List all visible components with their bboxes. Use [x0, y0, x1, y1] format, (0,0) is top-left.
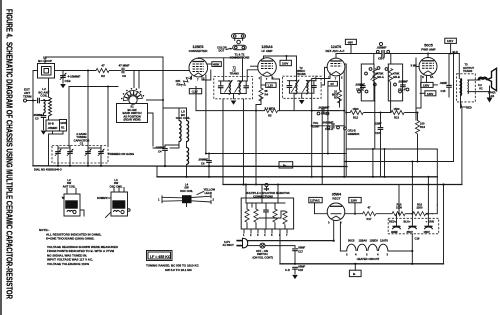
grid rail vertical junction [162, 56, 164, 58]
tube V4 50C5 [419, 44, 437, 80]
tuning gang C1 [52, 132, 134, 166]
vertical x148 below switch [148, 113, 154, 146]
svg-text:117VAC: 117VAC [310, 199, 320, 203]
svg-text:R1: R1 [61, 126, 65, 130]
svg-text:100K: 100K [60, 121, 66, 125]
capacitor C6 [198, 153, 212, 177]
svg-text:150V: 150V [424, 230, 430, 234]
resistor R3 [176, 75, 192, 88]
resistor R14 [415, 113, 425, 162]
svg-text:.05MMF: .05MMF [33, 113, 43, 117]
voice coil [478, 78, 487, 91]
resistor R2 [96, 64, 109, 79]
svg-text:I-F AMP: I-F AMP [261, 49, 272, 53]
svg-text:TERM: TERM [23, 95, 32, 99]
svg-text:C15: C15 [441, 89, 446, 93]
svg-text:.02MMF: .02MMF [377, 46, 387, 50]
wire row R2/C9 [63, 70, 96, 72]
svg-text:LS1: LS1 [490, 94, 495, 98]
tube V3 12AT6 [326, 45, 345, 81]
heater string [340, 239, 413, 262]
svg-text:100: 100 [420, 122, 425, 126]
svg-text:47: 47 [101, 64, 105, 68]
coil L2 SW ant assembly [62, 178, 85, 216]
resistor R16 [411, 203, 432, 216]
voltage box 90V on bus [279, 162, 293, 168]
svg-text:CONT: CONT [312, 124, 320, 128]
svg-text:NOTE:-: NOTE:- [39, 228, 49, 232]
resistor R12 [345, 107, 391, 119]
svg-text:PWR AMP: PWR AMP [421, 48, 435, 52]
note text [39, 228, 119, 266]
plate lead V1 to T1 [198, 57, 242, 59]
svg-text:C3: C3 [35, 117, 39, 121]
tuning range text [146, 264, 200, 273]
svg-text:47 MMF: 47 MMF [118, 64, 129, 68]
svg-text:R4: R4 [265, 92, 269, 96]
svg-text:RED: RED [466, 106, 472, 110]
svg-text:47: 47 [368, 206, 371, 210]
wire L1 right to trimmer [55, 70, 64, 72]
svg-text:VC: VC [479, 86, 483, 90]
svg-text:R13: R13 [394, 115, 399, 119]
svg-text:-66V: -66V [347, 40, 353, 44]
pin wires V3 [312, 73, 330, 177]
svg-text:FIGURE 4. SCHEMATIC DIAGRAM O: FIGURE 4. SCHEMATIC DIAGRAM OF CHASSIS U… [5, 9, 14, 299]
voltage box -6.6V [345, 39, 356, 53]
speaker LS1 [487, 68, 497, 102]
svg-text:TRANS: TRANS [296, 72, 305, 76]
svg-text:DET-AVC-A-F: DET-AVC-A-F [326, 49, 345, 53]
cathode resistor R4 [255, 77, 268, 186]
wire T1 secondary to V2 grid [246, 77, 248, 82]
svg-text:B+: B+ [283, 164, 287, 168]
svg-text:CONVERTER: CONVERTER [189, 49, 209, 53]
oscillator coil L5 [163, 108, 190, 168]
voltage box 0V [328, 81, 337, 86]
antenna coil L2 [38, 78, 51, 119]
ground below T1 [231, 101, 237, 105]
voltage box 100V [280, 55, 291, 66]
capacitor CR-E [355, 83, 368, 93]
voltage box 135V [421, 75, 438, 87]
coil L4 rod [158, 183, 215, 207]
capacitor C15 [440, 54, 452, 98]
coil L3 SW osc assembly [97, 178, 130, 218]
grid line with capacitor C12 [336, 53, 381, 55]
wire 35W4 plate row [345, 213, 363, 215]
svg-text:TRANS: TRANS [230, 72, 239, 76]
switch right lead [147, 99, 164, 101]
svg-text:SW 5.9 TO 18.1 MC: SW 5.9 TO 18.1 MC [165, 268, 193, 272]
left vertical V4 cathode [415, 58, 417, 120]
svg-text:R17: R17 [367, 217, 372, 221]
capacitor C9 [118, 64, 129, 79]
IF frequency box [147, 251, 173, 261]
power plug P1 [223, 238, 248, 248]
svg-text:12AT6: 12AT6 [380, 239, 388, 243]
resistor R17 [363, 206, 392, 221]
svg-text:R5: R5 [268, 114, 272, 118]
svg-text:135V: 135V [423, 83, 429, 87]
wire V3 down pair [343, 111, 345, 177]
svg-text:.05MF: .05MF [298, 246, 306, 250]
grid resistor R7 [332, 76, 342, 107]
svg-text:GIMMICK: GIMMICK [348, 132, 360, 136]
wire osc to bus [186, 168, 188, 177]
svg-text:C4: C4 [158, 150, 162, 154]
resistor R13 [391, 107, 419, 119]
wire T2 sec to V3 [315, 76, 317, 81]
wire plug top to heater [248, 240, 334, 242]
svg-text:K: K [422, 75, 424, 79]
vertical x69 [68, 87, 70, 147]
svg-text:ANT COIL: ANT COIL [63, 184, 76, 188]
trimmer capacitor C1A [60, 71, 81, 84]
volume control network R8 [361, 64, 384, 101]
label RED [461, 102, 472, 185]
svg-text:100V: 100V [282, 62, 288, 66]
transformer T2 [283, 56, 322, 111]
svg-text:GR-B: GR-B [393, 75, 400, 79]
resistor R1 box [60, 120, 67, 132]
svg-text:130V: 130V [427, 92, 433, 96]
tube V5 35W4 rectifier [327, 193, 345, 225]
wire terminal down to bus [33, 71, 38, 166]
svg-text:50C5: 50C5 [348, 239, 355, 243]
wires 35W4 pins down [333, 221, 335, 241]
svg-text:1.2V: 1.2V [268, 84, 274, 88]
transformer T3 [457, 54, 490, 109]
band switch S1 [117, 88, 148, 123]
svg-text:R7: R7 [334, 96, 338, 100]
svg-text:350V: 350V [407, 230, 413, 234]
ground below C3 [41, 131, 47, 135]
resistor R9 net [385, 64, 402, 101]
multiple unit CR1 [241, 183, 293, 237]
wire CR1 pin7 to bus [279, 233, 281, 264]
ground below C18 [292, 275, 298, 279]
svg-text:R2: R2 [101, 74, 105, 78]
svg-text:+ ORN: + ORN [426, 220, 434, 224]
svg-text:RED+: RED+ [389, 220, 397, 224]
electrolytic C16 dashed box [388, 214, 439, 241]
voltage box 120V [349, 197, 361, 214]
wire tube bottom to osc [205, 75, 207, 154]
antenna loop L1 [38, 56, 55, 79]
svg-text:455K: 455K [213, 62, 219, 66]
wire from buses into filter [411, 162, 413, 214]
wire V2 pin to T2 AGC [272, 76, 280, 111]
voltage box 130V [420, 91, 436, 96]
capacitor C2 [38, 98, 40, 104]
resistor block 20-B [46, 120, 60, 131]
ground below T2 [299, 100, 305, 104]
resistor R5 on AVC line [264, 107, 277, 118]
voltage box 121V [445, 38, 457, 54]
B- bus [280, 263, 444, 265]
svg-text:121V: 121V [447, 39, 453, 43]
svg-text:TUNING RANGE: BC 535 TO 1610 K: TUNING RANGE: BC 535 TO 1610 KC [146, 264, 200, 268]
capacitor CR-F [398, 80, 409, 93]
svg-text:R3: R3 [177, 83, 181, 87]
svg-text:120V: 120V [351, 199, 357, 203]
detector load caps row [311, 111, 345, 185]
svg-text:RECT: RECT [332, 197, 340, 201]
gimmick label CR1-B [344, 127, 360, 136]
pin stubs below CR1 [244, 229, 287, 233]
svg-text:.05MMF: .05MMF [48, 126, 58, 130]
wire rows right-mid [346, 148, 437, 150]
svg-text:C1: C1 [80, 142, 84, 146]
bus y176.5 [157, 176, 437, 178]
bus y185.6 right [443, 185, 445, 264]
voltage box 117VAC [309, 197, 328, 213]
voltage box -1.2V [189, 89, 201, 94]
svg-text:OSC COIL: OSC COIL [110, 184, 123, 188]
ext antenna terminal [23, 88, 36, 103]
svg-text:.02MMF: .02MMF [398, 80, 408, 84]
svg-text:2200: 2200 [417, 206, 423, 210]
svg-text:C13: C13 [375, 131, 380, 135]
svg-text:R14: R14 [420, 125, 425, 129]
svg-text:C1B: C1B [65, 79, 72, 83]
svg-text:.02MMF: .02MMF [355, 83, 365, 87]
svg-text:0V: 0V [331, 82, 334, 86]
svg-text:VOLTAGE TOLERANCE ±10%: VOLTAGE TOLERANCE ±10% [47, 262, 89, 266]
svg-text:OSC COIL: OSC COIL [176, 116, 191, 120]
svg-text:CONNECTIONS: CONNECTIONS [230, 56, 250, 60]
svg-text:22K: 22K [176, 79, 181, 83]
svg-text:12BE6: 12BE6 [370, 239, 379, 243]
svg-text:DOT: DOT [219, 48, 225, 52]
B- box [349, 263, 361, 277]
svg-text:B-: B- [353, 272, 356, 276]
wire L2 bottom into R1 [48, 119, 50, 120]
svg-text:AC 60CY: AC 60CY [223, 243, 235, 247]
svg-text:C6: C6 [201, 162, 205, 166]
svg-text:LEAD: LEAD [205, 191, 212, 195]
bus y182.5 [223, 184, 462, 186]
svg-text:C9: C9 [122, 74, 126, 78]
capacitor C3 [33, 113, 46, 121]
svg-text:(REAR VIEW): (REAR VIEW) [123, 118, 140, 122]
voltage box 1.2V [261, 83, 276, 88]
svg-text:K=ONE THOUSAND (1000) OHMS.: K=ONE THOUSAND (1000) OHMS. [46, 237, 95, 241]
page left edge rule [0, 0, 2, 315]
wire L1 top to grid rail [45, 57, 163, 146]
svg-text:.02MF: .02MF [440, 81, 448, 85]
tube V1 12BE6 converter [189, 45, 209, 82]
svg-text:-1.2V: -1.2V [191, 90, 198, 94]
svg-text:.05MF: .05MF [298, 264, 306, 268]
svg-text:4-25MMF: 4-25MMF [68, 75, 81, 79]
capacitor C17 [292, 246, 305, 265]
wire y86 rail to band switch [69, 86, 118, 88]
svg-text:GR-A: GR-A [377, 75, 384, 79]
ground below C1A [60, 84, 66, 88]
svg-text:HEATER CIRCUIT: HEATER CIRCUIT [357, 257, 380, 261]
switch top feed wires [133, 71, 135, 88]
svg-text:COIL: COIL [40, 94, 47, 98]
tube V2 12BA6 [258, 45, 297, 81]
svg-text:.05MMF: .05MMF [198, 158, 208, 162]
ground bus under gang [33, 165, 347, 168]
svg-text:12BA6: 12BA6 [359, 239, 368, 243]
svg-text:(ON VOL CONT): (ON VOL CONT) [253, 255, 274, 259]
switch S2 on-off [248, 243, 295, 259]
vertical x88 [87, 71, 89, 166]
svg-text:TRIMMER ON GANG: TRIMMER ON GANG [108, 152, 134, 156]
svg-text:20-B: 20-B [48, 122, 54, 126]
svg-text:OSC COIL: OSC COIL [180, 189, 193, 193]
svg-text:BLU+: BLU+ [404, 220, 412, 224]
svg-text:C17: C17 [298, 250, 303, 254]
svg-text:5A: 5A [430, 75, 433, 79]
detector caps CR1-C [312, 105, 340, 115]
voltage box 455KC at plate [208, 62, 222, 67]
svg-text:40MF: 40MF [391, 230, 398, 234]
capacitor C4 [155, 145, 179, 166]
svg-text:C18: C18 [298, 268, 303, 272]
capacitor C18 [285, 264, 305, 274]
svg-text:C16: C16 [415, 237, 420, 241]
capacitor C13 [374, 112, 383, 177]
svg-text:R12: R12 [353, 115, 358, 119]
AVC bus wire [196, 110, 265, 112]
connector J1 T1,T2 [217, 34, 250, 60]
vertical x412 to B- bus [411, 234, 413, 264]
svg-text:117V: 117V [224, 240, 230, 244]
transformer T1 [214, 58, 253, 99]
wires into gang [69, 145, 70, 147]
svg-text:C-D: C-D [285, 268, 290, 272]
svg-text:.02MMF: .02MMF [155, 146, 165, 150]
svg-text:TRANS: TRANS [463, 69, 472, 73]
resistor R15 [392, 203, 412, 216]
svg-text:I.F = 455 KC: I.F = 455 KC [150, 255, 171, 259]
svg-text:DIAL NO 432801040-3: DIAL NO 432801040-3 [34, 168, 62, 172]
svg-text:DUMMY: DUMMY [97, 196, 107, 200]
